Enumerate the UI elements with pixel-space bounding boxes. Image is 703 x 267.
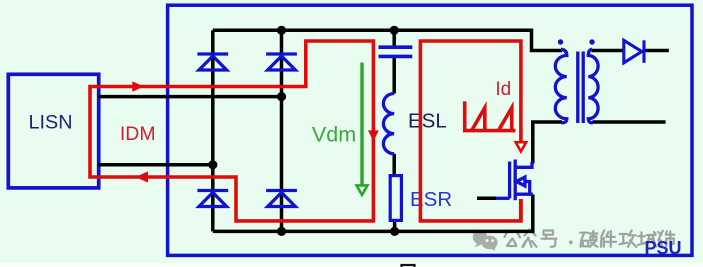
source stub [515, 193, 533, 196]
diode D3 bottom-left [197, 191, 228, 207]
transformer secondary winding [588, 49, 598, 123]
svg-text:PSU: PSU [644, 238, 681, 258]
arrow down on Vdm loop right side [368, 130, 379, 141]
MOSFET Q1 [496, 160, 533, 201]
arrow left on bottom red wire [136, 171, 149, 182]
inductor ESL coil [383, 94, 394, 154]
middle dot [569, 240, 573, 244]
transformer core [578, 52, 583, 124]
wire: bridge left leg [211, 30, 215, 231]
svg-text:Id: Id [495, 79, 511, 100]
wire: secondary top lead [592, 49, 624, 53]
transformer T1 primary winding [555, 49, 567, 123]
wire: secondary bottom lead [593, 120, 666, 124]
wire: transformer primary bottom to MOSFET drain [533, 122, 562, 164]
攻 [620, 230, 637, 247]
硬 [580, 231, 597, 247]
svg-text:Vdm: Vdm [312, 123, 356, 147]
green Vdm arrow [360, 63, 363, 186]
wire: output diode cathode lead [645, 49, 669, 53]
capacitor C1 plates [379, 47, 413, 56]
LISN box [8, 74, 98, 188]
wire: cap to ESL [392, 58, 396, 93]
output diode D5 [624, 40, 644, 63]
svg-text:LISN: LISN [29, 112, 73, 134]
svg-text:IDM: IDM [120, 123, 156, 145]
node: AC top / right leg [277, 92, 286, 101]
wire: AC bottom from LISN to bridge left leg [98, 163, 213, 167]
node: bottom rail / ESR [390, 227, 399, 236]
watermark wechat icon [473, 230, 498, 252]
node: top rail / right leg [277, 26, 286, 35]
wire: bridge right leg [280, 30, 284, 231]
wire: ESL to ESR [392, 154, 396, 175]
gate bar [508, 162, 511, 199]
svg-text:ESR: ESR [410, 188, 452, 211]
resistor ESR [390, 176, 401, 221]
body return [525, 182, 530, 195]
号 [542, 231, 557, 247]
diode D4 bottom-right [266, 191, 297, 207]
众 [523, 230, 537, 247]
gate lead blue part [496, 197, 510, 200]
件 [601, 230, 616, 247]
red source trace to bottom red line [519, 199, 523, 219]
body arrow [516, 177, 525, 186]
red Id box [420, 41, 521, 221]
caption box bottom (partial) [402, 265, 415, 267]
channel bar [514, 160, 517, 201]
wire: cap branch top [392, 30, 396, 45]
wire: ESR to bottom rail [393, 221, 397, 232]
PSU box [168, 5, 692, 255]
wire: AC top from LISN to bridge right leg [98, 95, 282, 99]
drain stub [515, 162, 532, 168]
wire: MOSFET gate lead black part [477, 197, 496, 201]
node: top rail / cap branch [390, 26, 399, 35]
公 [505, 231, 521, 247]
wire: bottom rail up to MOSFET source [213, 195, 533, 232]
watermark text 公众号 · 硬件攻城狮 [505, 230, 675, 247]
wire: top rail with step down to transformer primary [213, 30, 562, 50]
狮 [658, 231, 674, 247]
diode D1 top-left [197, 54, 228, 70]
red IDM loop (LISN - bridge - cap branch) [90, 41, 373, 221]
open red arrowhead pointing down at MOSFET drain [516, 142, 527, 151]
node: AC bottom / left leg [208, 160, 217, 169]
phasing dot primary [558, 39, 563, 44]
svg-text:ESL: ESL [408, 110, 447, 133]
phasing dot secondary [589, 39, 594, 44]
Id waveform [465, 101, 516, 130]
diode D2 top-right [266, 54, 297, 70]
node: bottom rail / right leg [277, 227, 286, 236]
arrow right on top red wire [132, 81, 144, 92]
城 [638, 232, 656, 247]
